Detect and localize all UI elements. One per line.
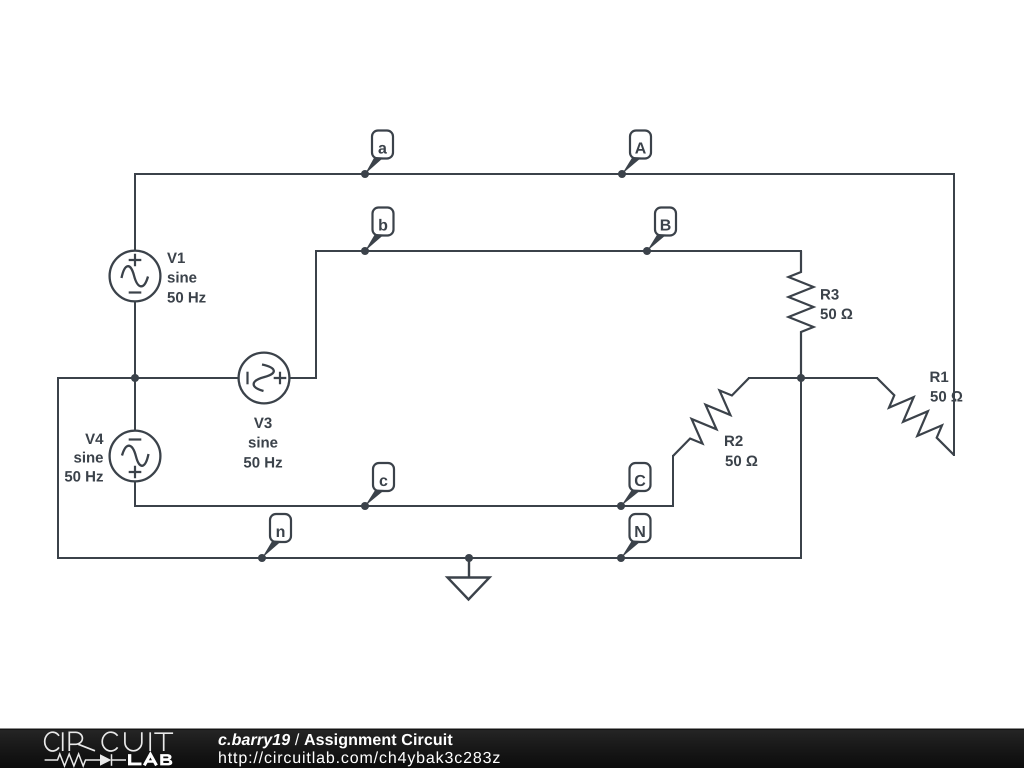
wire net n horizontal [58,557,801,559]
svg-text:B: B [660,218,672,235]
wire star point down to net n [800,378,802,558]
resistor R1 [877,369,963,455]
svg-text:b: b [378,218,388,235]
wire net c horizontal [135,505,673,507]
resistor R3 [789,251,853,378]
flag a [361,131,393,179]
svg-text:http://circuitlab.com/ch4ybak3: http://circuitlab.com/ch4ybak3c283z [218,750,501,767]
wire net a right-side vertical down to R1 [953,174,955,455]
voltage source V4 [110,431,161,482]
flag N [617,514,651,562]
wire R2 to star point [749,377,801,379]
wire net a horizontal [135,173,954,175]
svg-text:n: n [276,524,286,541]
CircuitLab logo wordmark CIRCUIT [45,732,173,751]
svg-text:c.barry19 / Assignment Circuit: c.barry19 / Assignment Circuit [218,732,453,749]
svg-text:a: a [378,141,387,158]
wire star point to R1 [801,377,877,379]
wire V1 top lead up to net a [134,174,136,250]
junction dot star point [797,374,805,382]
wire V1 bottom to mid junction [134,302,136,378]
svg-text:c: c [379,473,388,490]
wire V3 minus lead left across to left rail [58,377,238,379]
flag B [643,208,676,256]
CircuitLab logo resistor-diode glyph [45,754,126,766]
wire net c riser to R2 [672,456,674,506]
svg-text:C: C [634,473,646,490]
junction dot V1/V4/V3 node [131,374,139,382]
footer bar [0,729,1024,768]
svg-text:N: N [634,524,646,541]
flag n [258,514,291,562]
wire V4 bottom down to net c [134,482,136,506]
wire left rail vertical [57,378,59,558]
wire net b horizontal [316,250,801,252]
flag c [361,463,394,510]
flag A [618,131,651,179]
voltage source V1 [110,251,161,302]
svg-text:A: A [635,141,647,158]
wire mid junction down to V4 top [134,378,136,430]
CircuitLab logo wordmark LAB [128,754,172,765]
wire V3 plus lead and riser to net b [290,251,316,378]
junction dot ground tap [465,554,473,562]
flag C [617,463,651,510]
ground [448,558,490,600]
flag b [361,208,394,256]
resistor R2 [673,378,758,470]
voltage source V3 [239,353,290,404]
